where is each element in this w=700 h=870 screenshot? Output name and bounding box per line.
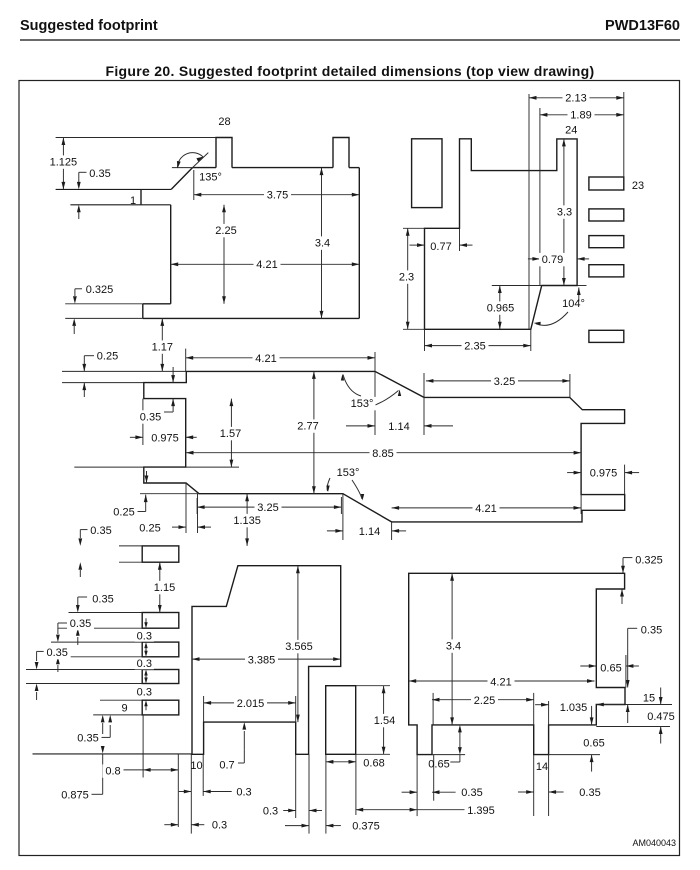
dim 0.35 (pad4 to base) bbox=[75, 715, 113, 745]
dim 0.68 (center rect width) bbox=[326, 756, 388, 769]
svg-text:0.25: 0.25 bbox=[97, 351, 118, 363]
dim 1.54 bbox=[371, 686, 398, 755]
svg-text:0.375: 0.375 bbox=[352, 821, 380, 833]
dim 153 deg (lower chamfer angle) bbox=[326, 466, 364, 501]
dim 135 deg (A chamfer angle) bbox=[172, 153, 222, 184]
center rect pad (between E and F) bbox=[326, 686, 356, 755]
dim 0.35 (F leg2 width) bbox=[518, 786, 604, 799]
dim 2.77 bbox=[295, 371, 322, 493]
svg-text:0.3: 0.3 bbox=[137, 658, 152, 670]
svg-text:14: 14 bbox=[536, 761, 548, 773]
svg-text:153°: 153° bbox=[351, 398, 374, 410]
svg-text:PWD13F60: PWD13F60 bbox=[605, 18, 680, 34]
svg-text:3.3: 3.3 bbox=[557, 207, 572, 219]
dim 0.25 (lower chamfer offset) bbox=[137, 521, 212, 534]
svg-text:23: 23 bbox=[632, 180, 644, 192]
dim 2.3 (B left height) bbox=[396, 228, 417, 329]
dim 1.135 bbox=[231, 494, 264, 546]
gap label 0.3 #2 bbox=[135, 658, 154, 670]
svg-text:3.385: 3.385 bbox=[248, 655, 276, 667]
dim 0.7 (E leg height) bbox=[217, 722, 247, 772]
header part number bbox=[605, 18, 680, 34]
svg-text:2.25: 2.25 bbox=[215, 225, 236, 237]
dim 1.89 bbox=[540, 108, 624, 121]
svg-text:153°: 153° bbox=[337, 467, 360, 479]
svg-text:0.79: 0.79 bbox=[542, 254, 563, 266]
svg-text:0.3: 0.3 bbox=[212, 820, 227, 832]
dim 0.35 (pin1 strip height) bbox=[77, 167, 114, 219]
dim 0.35 (target rect height) bbox=[78, 524, 114, 577]
dim 0.35 (row pad 3 height) bbox=[35, 646, 71, 700]
target rect extension lines bbox=[119, 546, 142, 562]
svg-text:3.565: 3.565 bbox=[285, 641, 313, 653]
dim 0.65 (pad15 width) bbox=[580, 661, 639, 674]
dim 3.25 (C lower left) bbox=[197, 501, 341, 514]
dim 8.85 bbox=[186, 447, 581, 460]
svg-text:4.21: 4.21 bbox=[490, 676, 511, 688]
svg-text:1: 1 bbox=[130, 195, 136, 207]
pad A outline (top-left pad with tabs, pins 1/28) bbox=[56, 138, 360, 319]
dim 0.35 (pad15 height) bbox=[626, 623, 665, 723]
dim 1.17 (gap A to C) bbox=[149, 318, 176, 371]
svg-text:0.975: 0.975 bbox=[151, 432, 179, 444]
dim 0.975 (C left notch width) bbox=[130, 431, 197, 444]
dim 0.35 (F leg1 width) bbox=[402, 786, 486, 799]
dim 4.21 (A width) bbox=[171, 258, 360, 271]
svg-text:28: 28 bbox=[218, 116, 230, 128]
dim 0.325 (F top step) bbox=[620, 553, 665, 604]
svg-text:2.3: 2.3 bbox=[399, 272, 414, 284]
dim 0.475 (pad15 offset) bbox=[645, 688, 678, 744]
dim 0.35 (C left step) bbox=[137, 367, 175, 424]
svg-text:2.77: 2.77 bbox=[297, 421, 318, 433]
dim 0.25 (C lower-left step) bbox=[111, 471, 149, 519]
dim 0.25 (C top-left step) bbox=[82, 349, 121, 397]
svg-text:0.35: 0.35 bbox=[461, 787, 482, 799]
svg-text:10: 10 bbox=[190, 760, 202, 772]
header title bbox=[20, 18, 158, 34]
svg-text:1.57: 1.57 bbox=[220, 428, 241, 440]
svg-text:0.35: 0.35 bbox=[641, 625, 662, 637]
svg-text:1.135: 1.135 bbox=[233, 515, 261, 527]
svg-text:0.3: 0.3 bbox=[137, 687, 152, 699]
dim 1.395 (rect to F leg1) bbox=[356, 804, 498, 817]
svg-text:2.25: 2.25 bbox=[474, 695, 495, 707]
svg-text:0.35: 0.35 bbox=[92, 594, 113, 606]
dim 104 deg (B chamfer angle) bbox=[534, 286, 587, 326]
dim 3.75 (A top width) bbox=[194, 188, 359, 201]
dim 4.21 (F width) bbox=[409, 675, 595, 688]
pad B extension lines bbox=[403, 92, 624, 351]
svg-text:3.25: 3.25 bbox=[257, 502, 278, 514]
dim 0.8 extension lines bbox=[143, 715, 178, 827]
dim 2.25 (A left edge height) bbox=[213, 205, 240, 304]
dim 0.325 (A bottom step) bbox=[72, 283, 116, 334]
dim 1.57 bbox=[217, 399, 244, 468]
svg-text:0.3: 0.3 bbox=[263, 806, 278, 818]
dim 0.77 (B step width) bbox=[410, 240, 473, 253]
svg-text:2.13: 2.13 bbox=[565, 93, 586, 105]
svg-text:0.8: 0.8 bbox=[105, 766, 120, 778]
dim 2.015 bbox=[204, 697, 296, 710]
svg-text:9: 9 bbox=[121, 703, 127, 715]
dim 4.21 (C bottom right) bbox=[392, 502, 581, 515]
dim 3.4 (A right height) bbox=[312, 168, 333, 319]
header rule bbox=[20, 39, 680, 41]
svg-text:0.7: 0.7 bbox=[219, 760, 234, 772]
baseline (bottom-left block) bbox=[33, 753, 193, 755]
dim 153 deg (upper chamfer angle) bbox=[341, 374, 401, 410]
dim 2.35 (B bottom width) bbox=[425, 339, 531, 352]
dim 2.25 (F legs span) bbox=[432, 694, 534, 707]
svg-text:3.75: 3.75 bbox=[267, 190, 288, 202]
svg-text:8.85: 8.85 bbox=[372, 448, 393, 460]
pin label 24 bbox=[565, 125, 577, 137]
svg-text:24: 24 bbox=[565, 125, 577, 137]
svg-text:1.14: 1.14 bbox=[359, 526, 380, 538]
pad E extension lines bbox=[191, 696, 309, 834]
dim 0.375 (gap E leg2 to rect) bbox=[285, 820, 383, 833]
pad F extension lines bbox=[417, 655, 672, 816]
dim 0.79 (pin24 tab width) bbox=[528, 253, 589, 266]
svg-text:0.68: 0.68 bbox=[363, 758, 384, 770]
svg-text:1.54: 1.54 bbox=[374, 715, 395, 727]
svg-text:0.325: 0.325 bbox=[86, 284, 114, 296]
svg-text:3.4: 3.4 bbox=[315, 238, 330, 250]
svg-text:0.35: 0.35 bbox=[140, 411, 161, 423]
svg-text:0.25: 0.25 bbox=[139, 522, 160, 534]
dim 0.875 bbox=[59, 715, 105, 802]
pin label 1 bbox=[130, 195, 136, 207]
pad B outline (top-right pad, pin 24) bbox=[425, 139, 578, 329]
svg-text:1.395: 1.395 bbox=[467, 805, 495, 817]
pin label 28 bbox=[218, 116, 230, 128]
svg-text:0.65: 0.65 bbox=[600, 662, 621, 674]
svg-text:0.25: 0.25 bbox=[113, 507, 134, 519]
pad E outline (bottom-center pad, pin 10) bbox=[192, 566, 341, 755]
dim 0.8 bbox=[103, 764, 179, 777]
dim 0.3 (E leg1 width) bbox=[179, 785, 255, 798]
svg-text:1.14: 1.14 bbox=[388, 421, 409, 433]
dim 1.035 (F leg2 to edge) bbox=[535, 701, 624, 714]
svg-text:0.975: 0.975 bbox=[590, 468, 618, 480]
dim 3.4 (F height) bbox=[443, 573, 464, 725]
dim 0.965 bbox=[484, 286, 517, 330]
svg-text:0.35: 0.35 bbox=[46, 647, 67, 659]
dim 4.21 (C top) bbox=[186, 352, 375, 365]
pin label 15 bbox=[643, 693, 655, 705]
pad C extension lines bbox=[62, 349, 625, 540]
svg-text:0.3: 0.3 bbox=[137, 630, 152, 642]
figure caption bbox=[106, 63, 595, 79]
right pad column (pins 23 down) bbox=[589, 177, 624, 342]
svg-text:Suggested footprint: Suggested footprint bbox=[20, 18, 158, 34]
pin label 14 bbox=[536, 761, 548, 773]
svg-text:1.15: 1.15 bbox=[154, 582, 175, 594]
svg-text:0.65: 0.65 bbox=[583, 738, 604, 750]
pad C outline (middle long pad) bbox=[144, 371, 625, 522]
svg-text:0.965: 0.965 bbox=[487, 303, 515, 315]
svg-text:0.35: 0.35 bbox=[89, 168, 110, 180]
svg-text:2.015: 2.015 bbox=[237, 698, 265, 710]
svg-text:15: 15 bbox=[643, 693, 655, 705]
pin label 23 bbox=[632, 180, 644, 192]
dim 0.3 (E leg2 width) bbox=[260, 804, 322, 817]
svg-text:0.875: 0.875 bbox=[61, 789, 89, 801]
svg-text:0.35: 0.35 bbox=[70, 618, 91, 630]
pad rows (pins 9 area) bbox=[142, 613, 179, 715]
dim 0.975 (C right notch) bbox=[567, 467, 639, 480]
gap label 0.3 #3 bbox=[135, 686, 154, 698]
svg-text:0.77: 0.77 bbox=[430, 241, 451, 253]
pad F outline (bottom-right pad, pins 14/15) bbox=[409, 573, 625, 754]
dim 0.35 (row pad 1 height) bbox=[76, 592, 117, 645]
dim 2.13 bbox=[529, 91, 624, 104]
svg-text:4.21: 4.21 bbox=[475, 503, 496, 515]
pad row extension lines bbox=[26, 613, 142, 715]
dim 3.385 bbox=[192, 653, 341, 666]
dim 1.15 bbox=[151, 562, 178, 612]
svg-text:1.89: 1.89 bbox=[570, 110, 591, 122]
pin label 9 bbox=[121, 702, 128, 714]
gap label 0.3 #1 bbox=[135, 630, 154, 642]
svg-text:0.3: 0.3 bbox=[236, 787, 251, 799]
svg-text:1.125: 1.125 bbox=[50, 157, 78, 169]
svg-text:3.4: 3.4 bbox=[446, 641, 461, 653]
svg-text:0.35: 0.35 bbox=[579, 787, 600, 799]
svg-text:2.35: 2.35 bbox=[464, 341, 485, 353]
figure code AM040043 bbox=[632, 838, 676, 848]
svg-text:0.475: 0.475 bbox=[647, 711, 675, 723]
dim 0.3 (gap base to E) bbox=[164, 819, 230, 832]
svg-text:0.35: 0.35 bbox=[90, 525, 111, 537]
svg-text:4.21: 4.21 bbox=[255, 353, 276, 365]
svg-text:0.325: 0.325 bbox=[635, 555, 663, 567]
dim 3.565 bbox=[283, 566, 316, 722]
svg-text:0.35: 0.35 bbox=[77, 733, 98, 745]
svg-text:AM040043: AM040043 bbox=[632, 838, 676, 848]
dim 1.14 (upper chamfer width) bbox=[346, 420, 453, 433]
pad row gap arrows (0.3 gaps) bbox=[144, 618, 147, 710]
dim 0.65 (F notch depth right) bbox=[581, 706, 608, 772]
dim 0.65 (F leg height) bbox=[428, 725, 462, 771]
center rect extension lines bbox=[326, 686, 390, 834]
svg-text:Figure 20. Suggested footprint: Figure 20. Suggested footprint detailed … bbox=[106, 63, 595, 79]
dim 3.25 (C upper right) bbox=[426, 375, 570, 388]
dim 0.35 (row pad 2 height) bbox=[56, 617, 94, 672]
svg-text:3.25: 3.25 bbox=[494, 376, 515, 388]
pin label 10 bbox=[190, 760, 202, 772]
svg-text:1.17: 1.17 bbox=[152, 342, 173, 354]
svg-text:4.21: 4.21 bbox=[256, 259, 277, 271]
svg-text:1.035: 1.035 bbox=[560, 702, 588, 714]
dim 1.14 (lower chamfer width) bbox=[327, 525, 406, 538]
svg-text:0.65: 0.65 bbox=[428, 759, 449, 771]
pad A extension lines bbox=[56, 138, 216, 319]
dim 1.125 (A left height) bbox=[47, 138, 80, 190]
dim 3.3 (pin24 tab height) bbox=[554, 139, 575, 286]
svg-text:135°: 135° bbox=[199, 172, 222, 184]
pad row target rect (below 1.135) bbox=[142, 546, 179, 562]
pad B small rect (upper-left pad) bbox=[412, 139, 442, 208]
svg-text:104°: 104° bbox=[562, 298, 585, 310]
